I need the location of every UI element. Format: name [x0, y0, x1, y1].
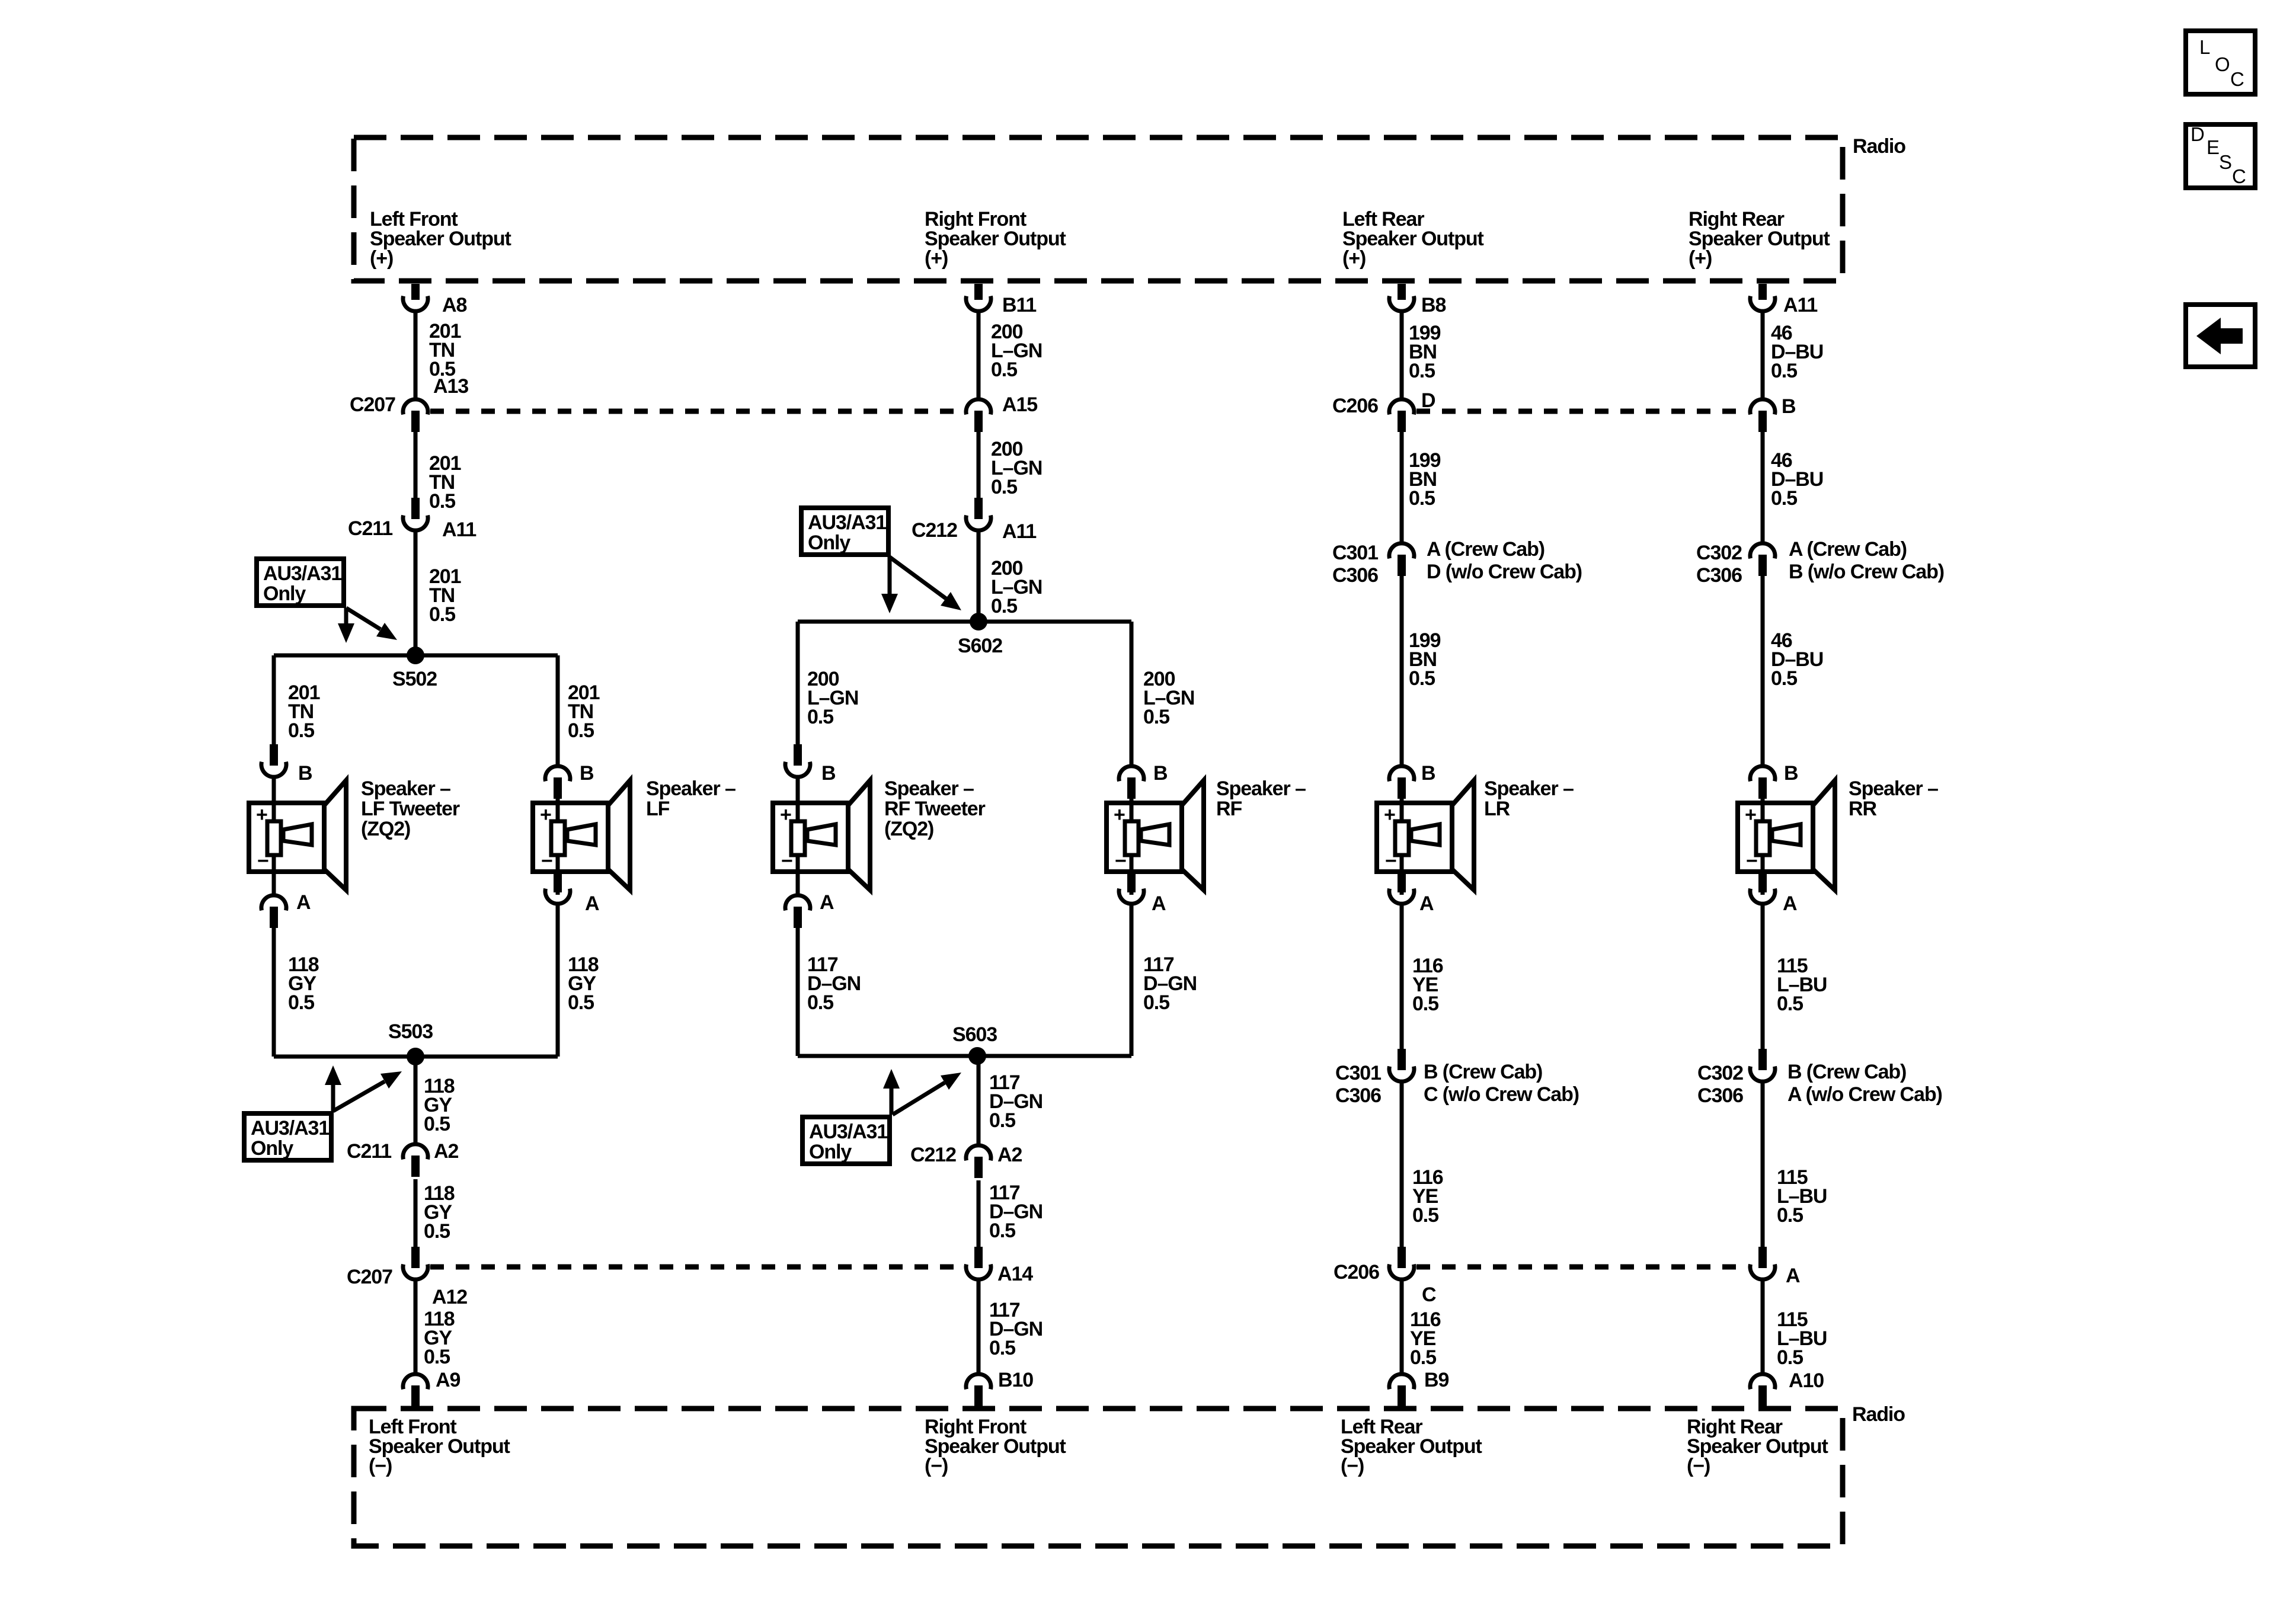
svg-text:0.5: 0.5 — [1409, 360, 1435, 382]
svg-text:RF Tweeter: RF Tweeter — [884, 798, 986, 820]
wire RF C212-A2 to A14 — [977, 1180, 981, 1247]
svg-text:C: C — [2232, 165, 2246, 187]
label C301/C306 (top) — [1332, 542, 1378, 587]
connector B (speaker RF) — [1119, 766, 1144, 799]
wire label 201 TN 0.5 (LF upper) — [429, 320, 461, 380]
svg-text:D: D — [1421, 389, 1435, 412]
label Speaker - RR — [1849, 777, 1938, 820]
pin label Left Front Speaker Output (+) — [370, 208, 511, 270]
svg-text:0.5: 0.5 — [288, 719, 314, 742]
connector B (speaker RR) — [1750, 766, 1775, 799]
label S502 — [392, 668, 437, 690]
pin label A (speaker LF) — [585, 892, 599, 915]
pin label B8 — [1421, 294, 1446, 316]
svg-text:A11: A11 — [442, 518, 476, 541]
wire RF speaker A to S603 — [1130, 905, 1134, 1056]
svg-text:C207: C207 — [347, 1266, 392, 1288]
arrow down (AU3 S602) — [881, 557, 898, 613]
svg-text:AU3/A31: AU3/A31 — [808, 511, 886, 534]
connector C206 pin C — [1389, 1247, 1414, 1279]
label Speaker - LR — [1484, 777, 1574, 820]
connector C301/C306 pin B-C — [1389, 1049, 1414, 1081]
connector A10 (radio bottom, RR) — [1750, 1374, 1775, 1407]
svg-text:A: A — [1419, 892, 1434, 915]
svg-text:B10: B10 — [998, 1369, 1033, 1391]
wire RR C302 to speaker B — [1761, 576, 1765, 764]
wire LR C301 to speaker B — [1400, 576, 1404, 764]
svg-text:0.5: 0.5 — [991, 359, 1017, 381]
pin label A (C206 RR) — [1786, 1265, 1800, 1287]
wire RF A14 to B10 — [977, 1281, 981, 1374]
pin label B (speaker LF) — [580, 762, 594, 785]
label Speaker - LF — [646, 777, 736, 820]
wire S502 crossbar — [274, 654, 558, 658]
wire RR C302-B to C206-A — [1761, 1083, 1765, 1247]
pin label A (speaker RF) — [1152, 892, 1166, 915]
svg-text:RR: RR — [1849, 798, 1876, 820]
svg-text:B: B — [298, 762, 312, 785]
wire label 117 D-GN 0.5 (RF tweeter branch) — [807, 953, 861, 1014]
wire label 118 GY 0.5 (LF speaker branch) — [568, 953, 599, 1014]
callout AU3/A31 Only (S602) — [801, 508, 888, 555]
svg-text:(−): (−) — [1341, 1455, 1364, 1477]
svg-text:A13: A13 — [433, 375, 468, 398]
connector C212 pin A11 — [966, 498, 991, 530]
label C206 (bottom) — [1334, 1261, 1379, 1283]
svg-text:(+): (+) — [1689, 247, 1712, 270]
wire RR C206-B to C302 — [1761, 432, 1765, 542]
svg-text:A: A — [1152, 892, 1166, 915]
legend box back-arrow — [2186, 305, 2255, 367]
svg-text:A: A — [585, 892, 599, 915]
connector B (LF tweeter) — [261, 744, 286, 777]
wire label 117 D-GN 0.5 (RF bottom) — [989, 1299, 1043, 1359]
label C206 (top) — [1332, 395, 1378, 417]
connector C207 pin A13 — [403, 399, 428, 432]
svg-text:B: B — [1153, 762, 1168, 785]
svg-text:B: B — [1784, 762, 1798, 785]
wire S602 crossbar — [798, 620, 1131, 624]
svg-text:C306: C306 — [1335, 1084, 1381, 1107]
wire label 200 L-GN 0.5 (RF mid) — [991, 438, 1042, 498]
wire label 46 D-BU 0.5 (RR upper) — [1771, 322, 1823, 382]
pin label B (RF tweeter) — [821, 762, 836, 785]
label S602 — [958, 635, 1002, 657]
svg-text:C211: C211 — [347, 1140, 391, 1163]
svg-text:AU3/A31: AU3/A31 — [263, 562, 341, 585]
wire LF A8 to C207 — [414, 313, 418, 398]
wire RR C206-A to A10 — [1761, 1281, 1765, 1374]
svg-text:B: B — [580, 762, 594, 785]
pin label A12 — [432, 1286, 467, 1308]
svg-text:0.5: 0.5 — [1771, 667, 1797, 690]
pin label A (Crew Cab) / B (w/o Crew Cab) — [1789, 538, 1944, 583]
svg-text:B11: B11 — [1002, 294, 1036, 316]
svg-text:0.5: 0.5 — [1143, 991, 1169, 1014]
pin label A9 — [436, 1369, 460, 1391]
svg-text:B: B — [1782, 395, 1796, 418]
svg-text:C212: C212 — [910, 1144, 956, 1166]
svg-text:0.5: 0.5 — [1771, 360, 1797, 382]
svg-text:B (Crew Cab): B (Crew Cab) — [1787, 1061, 1906, 1083]
pin label Right Rear Speaker Output (+) — [1689, 208, 1830, 270]
connector A11 (radio top, RR) — [1750, 284, 1775, 311]
wire LF C207 to C211 — [414, 432, 418, 498]
svg-text:0.5: 0.5 — [1412, 1204, 1438, 1227]
pin label D — [1421, 389, 1435, 412]
svg-text:C (w/o Crew Cab): C (w/o Crew Cab) — [1424, 1083, 1579, 1106]
svg-text:D (w/o Crew Cab): D (w/o Crew Cab) — [1427, 561, 1582, 583]
speaker LF Tweeter (ZQ2) — [249, 777, 346, 895]
wire LR B8 to C206 — [1400, 313, 1404, 398]
label C211 (lower) — [347, 1140, 391, 1163]
svg-text:B: B — [1421, 762, 1435, 785]
svg-text:C206: C206 — [1332, 395, 1378, 417]
pin label B10 — [998, 1369, 1033, 1391]
svg-text:Only: Only — [263, 582, 306, 605]
svg-text:(−): (−) — [369, 1455, 392, 1477]
pin label A10 — [1789, 1369, 1824, 1392]
svg-text:0.5: 0.5 — [1409, 487, 1435, 510]
label Speaker - RF — [1216, 777, 1306, 820]
svg-text:0.5: 0.5 — [424, 1113, 450, 1135]
svg-text:(+): (+) — [925, 247, 948, 270]
label Radio (bottom) — [1852, 1403, 1905, 1426]
wire RF B11 to A15 — [977, 313, 981, 398]
label C212 — [912, 519, 957, 542]
wire label 199 BN 0.5 (LR mid) — [1409, 449, 1441, 510]
wire LR C206-C to B9 — [1400, 1281, 1404, 1374]
connector C211 pin A2 — [403, 1144, 428, 1177]
svg-text:0.5: 0.5 — [989, 1337, 1015, 1359]
splice S503 — [407, 1048, 424, 1065]
wire LF C211 to S502 — [414, 532, 418, 655]
wire LR C301-B to C206-C — [1400, 1083, 1404, 1247]
svg-text:A: A — [1786, 1265, 1800, 1287]
pin label Left Rear Speaker Output (-) — [1341, 1416, 1482, 1477]
wire label 199 BN 0.5 (LR lower) — [1409, 629, 1441, 690]
wire RF tweeter A to S603 — [796, 928, 800, 1056]
wire LF C207-A12 to A9 — [414, 1281, 418, 1374]
svg-text:Only: Only — [251, 1137, 293, 1160]
pin label A2 (C212) — [997, 1144, 1022, 1166]
connector B (speaker LF) — [545, 766, 570, 799]
wire label 116 YE 0.5 (LR lower2) — [1412, 1166, 1443, 1227]
svg-text:0.5: 0.5 — [1777, 1204, 1803, 1227]
svg-text:Speaker –: Speaker – — [884, 777, 974, 800]
svg-text:RF: RF — [1216, 798, 1242, 820]
wire label 200 L-GN 0.5 (RF upper) — [991, 321, 1042, 381]
wire label 201 TN 0.5 (LF mid) — [429, 452, 461, 513]
svg-text:0.5: 0.5 — [429, 603, 455, 626]
svg-text:A14: A14 — [997, 1263, 1033, 1285]
label C302/C306 (top) — [1696, 542, 1742, 587]
wire label 115 L-BU 0.5 (RR bottom) — [1777, 1308, 1827, 1369]
wire S603 to C212-A2 — [977, 1056, 981, 1144]
pin label A (RF tweeter) — [820, 891, 834, 914]
svg-text:0.5: 0.5 — [1777, 993, 1803, 1015]
svg-text:Speaker –: Speaker – — [1484, 777, 1574, 800]
svg-text:C301: C301 — [1332, 542, 1378, 564]
pin label A2 (C211) — [434, 1140, 458, 1163]
dashed connector line C206 (bottom) — [1416, 1265, 1748, 1270]
wire label 116 YE 0.5 (LR bottom) — [1410, 1308, 1441, 1369]
svg-text:0.5: 0.5 — [1777, 1346, 1803, 1369]
wire label 115 L-BU 0.5 (RR lower2) — [1777, 1166, 1827, 1227]
svg-text:A2: A2 — [997, 1144, 1022, 1166]
label C301/C306 (bottom) — [1335, 1062, 1381, 1107]
pin label A11 (RR) — [1783, 294, 1817, 316]
Radio connector box (bottom, dashed) — [354, 1409, 1843, 1546]
wire label 46 D-BU 0.5 (RR mid) — [1771, 449, 1823, 510]
svg-text:A12: A12 — [432, 1286, 467, 1308]
svg-text:(+): (+) — [370, 247, 393, 270]
pin label B (speaker RR) — [1784, 762, 1798, 785]
svg-text:A: A — [296, 891, 311, 914]
wire RF A15 to C212 — [977, 432, 981, 498]
connector A9 (radio bottom, LF) — [403, 1374, 428, 1407]
pin label C — [1422, 1283, 1436, 1306]
wire label 115 L-BU 0.5 (RR upper2) — [1777, 955, 1827, 1015]
wire label 118 GY 0.5 (tweeter branch) — [288, 953, 319, 1014]
dashed connector line C206 (top) — [1416, 409, 1748, 414]
callout AU3/A31 Only (S503) — [244, 1113, 331, 1160]
pin label A11 (C211) — [442, 518, 476, 541]
connector C207 pin A12 — [403, 1247, 428, 1279]
svg-text:B (w/o Crew Cab): B (w/o Crew Cab) — [1789, 561, 1944, 583]
wire S503 crossbar — [274, 1055, 558, 1059]
label C207 — [350, 393, 395, 416]
svg-text:0.5: 0.5 — [991, 476, 1017, 498]
wire label 117 D-GN 0.5 (RF below S603) — [989, 1071, 1043, 1132]
connector B11 (radio top, RF) — [966, 284, 991, 311]
svg-text:Only: Only — [809, 1141, 852, 1163]
svg-text:C206: C206 — [1334, 1261, 1379, 1283]
svg-text:S502: S502 — [392, 668, 437, 690]
callout AU3/A31 Only (S502) — [257, 559, 344, 606]
svg-text:C306: C306 — [1332, 564, 1378, 587]
label C302/C306 (bottom) — [1697, 1062, 1743, 1107]
connector C212 pin A2 — [966, 1145, 991, 1178]
wire RR speaker A to C302-B — [1761, 905, 1765, 1049]
svg-text:LF: LF — [646, 798, 670, 820]
svg-text:C207: C207 — [350, 393, 395, 416]
wire label 200 L-GN 0.5 (RF lower) — [991, 557, 1042, 617]
svg-text:0.5: 0.5 — [1143, 706, 1169, 728]
svg-text:(−): (−) — [925, 1455, 948, 1477]
pin label A8 — [442, 294, 466, 316]
pin label B (speaker LR) — [1421, 762, 1435, 785]
dashed connector line C207 (top) — [430, 409, 964, 414]
wire label 118 GY 0.5 (LF bottom) — [424, 1308, 455, 1368]
svg-text:S603: S603 — [952, 1023, 997, 1046]
connector C206 pin B (RR) — [1750, 399, 1775, 432]
svg-text:(ZQ2): (ZQ2) — [361, 818, 410, 840]
wire label 200 L-GN 0.5 (RF tweeter branch) — [807, 668, 858, 728]
wire label 117 D-GN 0.5 (RF speaker branch) — [1143, 953, 1197, 1014]
speaker LR — [1377, 777, 1474, 895]
svg-text:(+): (+) — [1342, 247, 1366, 270]
svg-text:A11: A11 — [1002, 520, 1036, 543]
svg-text:0.5: 0.5 — [807, 991, 833, 1014]
arrow up (AU3 S503) — [325, 1065, 341, 1111]
legend box DESC — [2186, 123, 2255, 188]
speaker LF — [533, 777, 630, 895]
svg-text:S: S — [2219, 151, 2232, 173]
arrow down (AU3 S502) — [338, 608, 354, 643]
svg-text:Radio: Radio — [1852, 1403, 1905, 1426]
svg-text:Speaker –: Speaker – — [361, 777, 450, 800]
svg-text:A15: A15 — [1002, 393, 1037, 416]
pin label A (Crew Cab) / D (w/o Crew Cab) — [1427, 538, 1582, 583]
wire label 200 L-GN 0.5 (RF speaker branch) — [1143, 668, 1194, 728]
pin label A (speaker LR) — [1419, 892, 1434, 915]
connector C302/C306 pin B-A — [1750, 1049, 1775, 1081]
speaker RF — [1107, 777, 1204, 895]
wire S603 crossbar — [798, 1054, 1131, 1058]
connector B9 (radio bottom, LR) — [1389, 1374, 1414, 1407]
svg-text:Speaker –: Speaker – — [646, 777, 736, 800]
pin label Right Front Speaker Output (+) — [925, 208, 1066, 270]
pin label Right Rear Speaker Output (-) — [1687, 1416, 1828, 1477]
svg-text:LF Tweeter: LF Tweeter — [361, 798, 460, 820]
wire S502 to LF tweeter B — [272, 655, 276, 745]
connector C206 pin A (RR) — [1750, 1247, 1775, 1279]
svg-text:A: A — [1783, 892, 1797, 915]
svg-text:Only: Only — [808, 532, 850, 554]
pin label B (LF tweeter) — [298, 762, 312, 785]
legend box LOC — [2186, 31, 2255, 94]
pin label Left Front Speaker Output (-) — [369, 1416, 510, 1477]
svg-text:0.5: 0.5 — [989, 1219, 1015, 1242]
svg-text:S503: S503 — [388, 1020, 433, 1043]
pin label A11 (C212) — [1002, 520, 1036, 543]
splice S502 — [407, 646, 424, 664]
svg-text:C: C — [2230, 68, 2244, 90]
pin label A (LF tweeter) — [296, 891, 311, 914]
wire LR speaker A to C301-B — [1400, 905, 1404, 1049]
svg-text:A8: A8 — [442, 294, 466, 316]
svg-text:C306: C306 — [1696, 564, 1742, 587]
svg-text:C302: C302 — [1697, 1062, 1743, 1084]
pin label Left Rear Speaker Output (+) — [1342, 208, 1484, 270]
svg-text:E: E — [2207, 136, 2220, 158]
svg-text:AU3/A31: AU3/A31 — [251, 1117, 329, 1140]
svg-text:0.5: 0.5 — [991, 595, 1017, 617]
connector A8 (radio top, LF) — [403, 284, 428, 311]
arrow to S602 — [890, 557, 961, 610]
svg-text:0.5: 0.5 — [288, 991, 314, 1014]
svg-text:A11: A11 — [1783, 294, 1817, 316]
splice S602 — [970, 613, 987, 630]
connector C206 pin D — [1389, 399, 1414, 432]
svg-text:0.5: 0.5 — [424, 1220, 450, 1243]
pin label A15 — [1002, 393, 1037, 416]
wire S503 to C211-A2 — [414, 1057, 418, 1142]
svg-text:B8: B8 — [1421, 294, 1446, 316]
svg-text:C212: C212 — [912, 519, 957, 542]
connector A (speaker RR) — [1750, 871, 1775, 904]
svg-text:C: C — [1422, 1283, 1436, 1306]
label Speaker - RF Tweeter (ZQ2) — [884, 777, 986, 840]
connector A (RF tweeter) — [785, 895, 810, 928]
svg-text:Radio: Radio — [1853, 135, 1905, 158]
label S503 — [388, 1020, 433, 1043]
speaker RF Tweeter (ZQ2) — [773, 777, 870, 895]
svg-text:C306: C306 — [1697, 1084, 1743, 1107]
svg-text:0.5: 0.5 — [424, 1346, 450, 1368]
svg-text:L: L — [2199, 36, 2210, 58]
wire LR C206 to C301 — [1400, 432, 1404, 542]
connector B10 (radio bottom, RF) — [966, 1374, 991, 1407]
svg-text:0.5: 0.5 — [568, 719, 594, 742]
connector C211 pin A11 — [403, 498, 428, 530]
connector B (RF tweeter) — [785, 744, 810, 777]
svg-text:A (Crew Cab): A (Crew Cab) — [1789, 538, 1907, 561]
svg-text:A: A — [820, 891, 834, 914]
svg-text:(ZQ2): (ZQ2) — [884, 818, 933, 840]
arrow to S503 — [333, 1071, 402, 1111]
wire label 201 TN 0.5 (tweeter branch) — [288, 681, 320, 742]
connector A (speaker LR) — [1389, 871, 1414, 904]
arrow to S502 — [346, 608, 397, 640]
svg-text:0.5: 0.5 — [1771, 487, 1797, 510]
connector C302/C306 pin A-B — [1750, 543, 1775, 576]
pin label A (speaker RR) — [1783, 892, 1797, 915]
connector A (speaker RF) — [1119, 871, 1144, 904]
pin label Right Front Speaker Output (-) — [925, 1416, 1066, 1477]
callout AU3/A31 Only (S603) — [802, 1117, 890, 1164]
svg-text:0.5: 0.5 — [1412, 993, 1438, 1015]
svg-text:AU3/A31: AU3/A31 — [809, 1121, 887, 1143]
svg-text:0.5: 0.5 — [1409, 667, 1435, 690]
svg-text:B9: B9 — [1424, 1369, 1448, 1391]
label Speaker - LF Tweeter (ZQ2) — [361, 777, 460, 840]
svg-text:0.5: 0.5 — [1410, 1346, 1436, 1369]
svg-text:S602: S602 — [958, 635, 1002, 657]
svg-text:A (w/o Crew Cab): A (w/o Crew Cab) — [1787, 1083, 1942, 1106]
pin label B (speaker RF) — [1153, 762, 1168, 785]
svg-text:Speaker –: Speaker – — [1216, 777, 1306, 800]
wire label 117 D-GN 0.5 (RF mid lower) — [989, 1182, 1043, 1242]
label Radio (top) — [1853, 135, 1905, 158]
arrow to S603 — [893, 1073, 961, 1115]
wire label 46 D-BU 0.5 (RR lower) — [1771, 629, 1823, 690]
svg-text:B: B — [821, 762, 836, 785]
connector A (speaker LF) — [545, 871, 570, 904]
wire label 199 BN 0.5 (LR upper) — [1409, 322, 1441, 382]
svg-text:(−): (−) — [1687, 1455, 1710, 1477]
wire label 201 TN 0.5 (LF lower) — [429, 565, 461, 626]
svg-text:C211: C211 — [348, 517, 392, 540]
svg-text:A10: A10 — [1789, 1369, 1824, 1392]
label S603 — [952, 1023, 997, 1046]
pin label B9 — [1424, 1369, 1448, 1391]
pin label B11 — [1002, 294, 1036, 316]
wire RR A11 to C206-B — [1761, 313, 1765, 398]
dashed connector line C207 (bottom) — [430, 1265, 964, 1270]
svg-text:D: D — [2191, 123, 2205, 145]
pin label B (Crew Cab) / C (w/o Crew Cab) — [1424, 1061, 1579, 1106]
label C211 — [348, 517, 392, 540]
label C212 (lower) — [910, 1144, 956, 1166]
svg-text:A (Crew Cab): A (Crew Cab) — [1427, 538, 1544, 561]
label C207 (lower) — [347, 1266, 392, 1288]
connector B (speaker LR) — [1389, 766, 1414, 799]
pin label A14 — [997, 1263, 1033, 1285]
connector A (LF tweeter) — [261, 895, 286, 928]
svg-text:0.5: 0.5 — [989, 1109, 1015, 1132]
